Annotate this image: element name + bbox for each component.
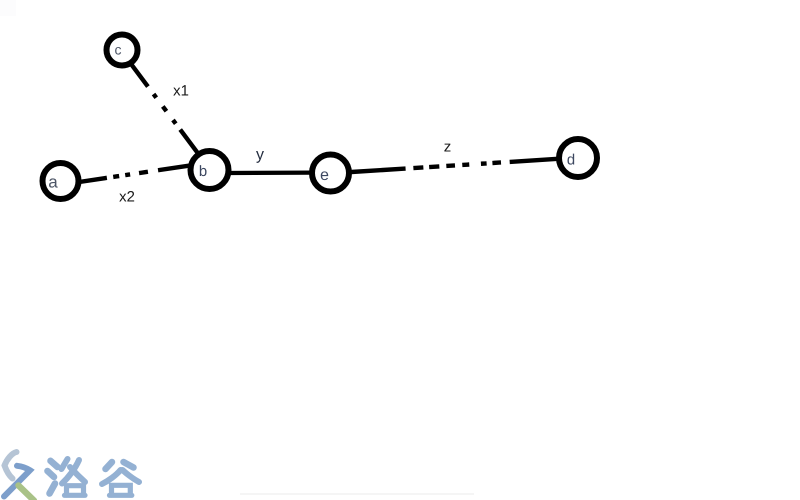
edge y (b-e) [228, 170, 312, 175]
edge z (e-d) [352, 159, 556, 172]
node c [107, 35, 138, 66]
faint bottom line [240, 493, 474, 495]
watermark char luo (ge right part) [62, 459, 68, 469]
watermark logo: light chevron stroke [5, 452, 17, 479]
watermark char gu [102, 462, 139, 495]
label y [256, 151, 264, 163]
node a [43, 163, 79, 199]
label x2 [119, 194, 126, 202]
faint corner square [0, 0, 16, 16]
watermark logo: green stroke [19, 486, 35, 500]
edge x1 (c-b) [131, 64, 197, 152]
watermark logo: blue stroke [4, 466, 30, 497]
edge x2 (a-b) [79, 166, 190, 183]
label x1 [173, 88, 180, 96]
watermark char luo (water radical) [48, 459, 86, 495]
label z [444, 144, 450, 152]
node d [559, 139, 597, 177]
node e [312, 155, 349, 192]
node b [191, 151, 229, 189]
